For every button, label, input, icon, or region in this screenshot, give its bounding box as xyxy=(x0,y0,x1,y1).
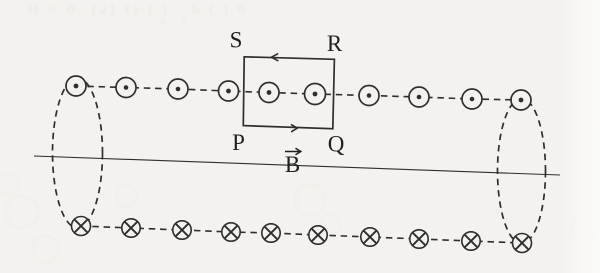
vector arrow over B xyxy=(285,148,301,155)
svg-text:· ı · ( ·: · ı · ( · xyxy=(150,13,199,27)
right end ellipse of solenoid (dashed) xyxy=(498,99,546,244)
crosses of field-in circles xyxy=(75,220,529,250)
field-out circle 9 xyxy=(462,89,482,109)
current arrow on bottom edge (pointing right) xyxy=(291,124,298,131)
field-in circle 6 xyxy=(309,226,327,244)
field-out circle 2 xyxy=(116,78,136,98)
field-in circles (cross in circle), bottom row xyxy=(72,217,532,253)
field-in circle 9 xyxy=(462,232,480,250)
svg-text:Q: Q xyxy=(328,132,345,157)
field-out circle 3 xyxy=(168,79,188,99)
field-out circle 6 xyxy=(305,84,326,105)
field-out circle 8 xyxy=(409,87,429,107)
bottom dashed field line xyxy=(81,226,522,243)
field-in circle 7 xyxy=(361,228,379,246)
dots of field-out circles xyxy=(74,84,524,103)
field-out circle 5 xyxy=(259,83,279,103)
field-out circles (dot in circle), top row xyxy=(66,76,531,110)
current arrow on top edge (pointing left) xyxy=(271,54,278,61)
field-in circle 2 xyxy=(122,219,140,237)
svg-text:S: S xyxy=(230,27,243,52)
field-out circle 1 xyxy=(66,76,86,96)
svg-text:P: P xyxy=(232,130,245,155)
field-in circle 5 xyxy=(262,224,280,242)
top dashed field line xyxy=(76,86,521,100)
axis line of solenoid xyxy=(34,156,560,175)
field-out circle 4 xyxy=(219,81,239,101)
svg-text:H = 0 ·(a) I)·( i · b ( i: H = 0 ·(a) I)·( i · b ( i 0 xyxy=(28,2,248,18)
svg-text:R: R xyxy=(327,31,343,56)
field-in circle 3 xyxy=(173,221,191,239)
field-out circle 7 xyxy=(359,86,379,106)
field-in circle 10 xyxy=(513,234,532,253)
svg-text:B: B xyxy=(285,152,300,177)
field-out circle 10 xyxy=(511,90,531,110)
field-in circle 4 xyxy=(222,223,240,241)
lighter page edge at right (decorative) xyxy=(562,0,600,273)
field-in circle 8 xyxy=(410,230,428,248)
rectangular loop SRQP xyxy=(243,57,334,129)
left end ellipse of solenoid (dashed) xyxy=(53,78,103,228)
field-in circle 1 xyxy=(72,217,91,236)
